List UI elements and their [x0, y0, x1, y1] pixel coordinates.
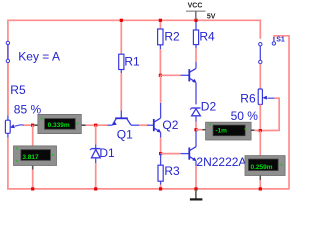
label Q1: [117, 127, 133, 141]
wire R1 to Q1 base: [120, 73, 122, 111]
label Q2: [162, 118, 178, 132]
transistor Q1: [108, 111, 140, 126]
wire voltmeter to bottom rail: [32, 166, 34, 189]
svg-text:-1m: -1m: [215, 128, 227, 135]
node bottom right junction: [259, 187, 262, 190]
wire R6 bottom: [259, 105, 261, 131]
svg-text:R5: R5: [10, 83, 26, 97]
label S1: [276, 36, 285, 43]
switch S1: [259, 37, 276, 64]
svg-text:Q2: Q2: [162, 118, 178, 132]
wire Q1 collector to Q2 base: [139, 124, 147, 126]
label D1: [99, 146, 115, 160]
wire R6 wiper loop: [262, 98, 280, 130]
label 85 %: [14, 103, 42, 117]
label R1: [124, 54, 140, 68]
resistor R1: [119, 20, 124, 73]
label D2: [201, 99, 217, 113]
transistor Q3 top right: [181, 62, 197, 104]
node ground junction: [194, 187, 197, 190]
wire R2 down to tee: [159, 49, 161, 75]
svg-text:R3: R3: [164, 164, 180, 178]
svg-text:3.817: 3.817: [22, 154, 39, 161]
svg-text:R6: R6: [240, 92, 256, 106]
svg-text:R2: R2: [164, 30, 180, 44]
label R4: [199, 30, 215, 44]
svg-text:D1: D1: [99, 146, 115, 160]
transistor Q2: [147, 103, 161, 138]
diode D2: [190, 108, 200, 122]
svg-text:5V: 5V: [207, 13, 216, 20]
label R3: [164, 164, 180, 178]
wire bottom rail: [8, 36, 289, 189]
wire R3 to bottom rail: [160, 185, 162, 189]
label R6: [240, 92, 256, 106]
svg-text:85 %: 85 %: [14, 103, 42, 117]
wire node down to Q4 collector: [195, 131, 197, 147]
node D2 bottom: [194, 128, 197, 131]
node Q2 emitter junction: [159, 152, 162, 155]
node R2 top: [159, 19, 162, 22]
wire node to ammeter -1m: [196, 129, 206, 131]
wire Q4 emitter to bottom rail: [195, 166, 197, 189]
wire Q2 emitter down: [160, 138, 162, 154]
svg-text:S1: S1: [276, 36, 285, 43]
svg-text:50 %: 50 %: [231, 109, 259, 123]
svg-text:0.339m: 0.339m: [48, 122, 70, 129]
svg-text:Q1: Q1: [117, 127, 133, 141]
ammeter probe 0.259m: [245, 156, 285, 181]
wire ammeter to R6 bottom node: [254, 129, 260, 131]
node bottom rail / voltmeter: [31, 187, 34, 190]
transistor Q4 2N2222A: [180, 147, 196, 166]
wire D2 to node: [195, 122, 197, 130]
resistor R4: [193, 20, 198, 48]
svg-text:D2: D2: [201, 99, 217, 113]
svg-text:R4: R4: [199, 30, 215, 44]
power VCC 5V: [186, 3, 216, 21]
ammeter probe -1m: [206, 122, 255, 140]
switch key A: [6, 41, 9, 62]
potentiometer R5: [5, 63, 24, 133]
wire D1 to bottom rail: [95, 163, 97, 189]
wire node to ammeter 0.259m: [259, 131, 261, 156]
node D1 bottom: [94, 187, 97, 190]
diode D1: [90, 145, 100, 164]
label R2: [164, 30, 180, 44]
label 50 %: [231, 109, 259, 123]
node D1 tap: [94, 124, 97, 127]
wire S1 to R6: [259, 64, 261, 89]
voltmeter probe 3.817: [14, 146, 57, 166]
wire R4 to Q3 collector: [195, 48, 197, 62]
svg-text:0.259m: 0.259m: [251, 164, 273, 171]
svg-text:Key = A: Key = A: [18, 50, 60, 64]
wire D1 column upper: [95, 125, 97, 144]
wire ammeter to bottom rail: [259, 180, 261, 189]
resistor R2: [158, 20, 163, 49]
label Key = A: [18, 50, 60, 64]
label R5: [10, 83, 26, 97]
node VCC junction: [194, 19, 197, 22]
node R1 top: [120, 19, 123, 22]
potentiometer R6: [258, 89, 274, 105]
wire R5 wiper to probe: [24, 124, 34, 126]
node R6 bottom junction: [259, 129, 262, 132]
node R2 bottom tee: [159, 74, 162, 77]
ground: [190, 189, 203, 200]
wire tee down to Q2 collector: [160, 75, 162, 103]
node wiper junction: [31, 124, 34, 127]
wire top rail: [8, 20, 260, 115]
resistor R3: [158, 154, 163, 185]
wire junction to Q4 base: [161, 153, 181, 155]
wire probe to Q1 emitter: [86, 124, 108, 126]
svg-text:2N2222A: 2N2222A: [196, 155, 246, 169]
node R3 bottom: [159, 187, 162, 190]
svg-text:R1: R1: [124, 54, 140, 68]
ammeter probe XMM1 0.339m: [34, 114, 85, 133]
wire junction down to voltmeter: [32, 125, 34, 146]
label 2N2222A: [196, 155, 246, 169]
wire tee to Q3 base: [160, 74, 180, 76]
svg-text:VCC: VCC: [188, 3, 203, 10]
